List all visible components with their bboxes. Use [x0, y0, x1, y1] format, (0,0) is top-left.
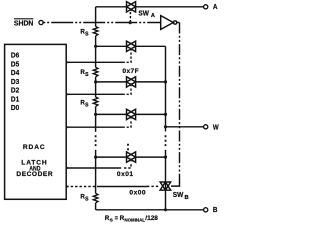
RDAC latch and decoder box	[5, 44, 67, 199]
svg-text:RDAC: RDAC	[23, 144, 45, 151]
wire: decoder line A	[66, 61, 125, 63]
wire: SHDN dash-dot control line	[43, 22, 160, 24]
svg-text:D2: D2	[11, 86, 19, 95]
node B terminal circle	[204, 208, 208, 212]
resistor R4	[93, 193, 98, 203]
switch SWA	[127, 2, 136, 12]
svg-text:SW: SW	[173, 190, 184, 199]
op-amp U1 inverter	[161, 16, 174, 30]
node tap1 dot	[94, 45, 97, 48]
node W output dot	[164, 125, 167, 128]
trunk dotted ellipsis	[95, 135, 97, 146]
node W terminal circle	[204, 125, 208, 129]
wire tap2 right	[136, 81, 166, 83]
svg-text:D1: D1	[11, 94, 19, 103]
node bottom junction dot	[164, 208, 167, 211]
ctrl column dotted ellipsis	[127, 144, 129, 151]
svg-text:0x01: 0x01	[117, 171, 134, 178]
svg-text:DECODER: DECODER	[16, 171, 52, 178]
node tap3 dot	[94, 113, 97, 116]
wire tap1 right	[136, 45, 166, 47]
wire tap2 left	[96, 81, 127, 83]
node W bus dot row3	[164, 113, 167, 116]
switch tap3	[127, 109, 136, 119]
svg-text:D0: D0	[11, 103, 19, 112]
wire tap4 right	[136, 156, 166, 158]
resistor R1	[93, 26, 98, 36]
W bus dotted ellipsis	[165, 135, 167, 146]
wire: decoder line E (dash-dot to SWB)	[66, 186, 96, 188]
wire: W output line	[166, 126, 204, 128]
wire: dashed control stub below SWA	[129, 12, 131, 21]
resistor R3	[93, 97, 98, 107]
svg-text:D5: D5	[11, 59, 19, 68]
node W bus dot row4	[164, 156, 167, 159]
wire tap1 left	[96, 45, 127, 47]
svg-text:0x00: 0x00	[129, 190, 146, 197]
svg-text:/128: /128	[145, 215, 158, 222]
wire: SWB right control elbow	[171, 183, 180, 187]
svg-text:D3: D3	[11, 77, 19, 86]
switch tap2	[127, 77, 136, 87]
wire: decoder line B	[66, 93, 125, 95]
wire: bottom line to terminal B	[96, 209, 204, 211]
node junction dot SWA control	[129, 21, 132, 24]
node A terminal circle	[204, 5, 208, 9]
svg-text:W: W	[213, 122, 219, 131]
svg-text:SHDN: SHDN	[14, 18, 34, 27]
wire tap3 right	[136, 113, 166, 115]
wire: W bus vertical	[165, 46, 167, 131]
svg-text:D4: D4	[11, 68, 20, 77]
wire: decoder line C	[66, 126, 125, 128]
svg-text:D6: D6	[11, 51, 19, 60]
wire: SW_A to terminal A	[136, 6, 204, 8]
wire: inverter output dash-dot down right side	[179, 23, 181, 184]
node tap4 dot	[94, 156, 97, 159]
svg-text:0x7F: 0x7F	[122, 68, 138, 75]
SHDN input circle	[39, 20, 43, 24]
wire: top line from resistor string to SW_A	[96, 6, 127, 8]
node tap2 dot	[94, 80, 97, 83]
svg-text:NOMINAL: NOMINAL	[124, 217, 145, 223]
wire tap4 left	[96, 156, 127, 158]
switch tap1 (0x7F)	[127, 41, 136, 51]
svg-text:A: A	[151, 13, 155, 19]
wire tap3 left	[96, 113, 127, 115]
SHDN label	[14, 18, 34, 27]
svg-text:B: B	[213, 205, 218, 214]
switch tap4 (0x01)	[127, 152, 136, 162]
resistor R2	[93, 67, 98, 77]
svg-text:SW: SW	[138, 9, 149, 18]
node W bus dot row2	[164, 80, 167, 83]
wire: resistor string trunk segments	[95, 7, 97, 27]
svg-text:A: A	[213, 2, 218, 11]
svg-text:=: =	[115, 215, 119, 222]
svg-text:B: B	[185, 195, 189, 201]
switch SWB (vertical flow)	[160, 182, 171, 190]
wire: decoder line D	[66, 167, 121, 169]
